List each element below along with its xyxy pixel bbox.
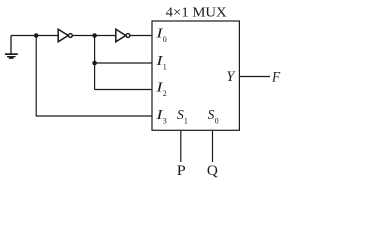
svg-text:2: 2 (163, 89, 167, 98)
svg-text:4×1 MUX: 4×1 MUX (166, 5, 227, 20)
mux U3 box (152, 21, 239, 130)
svg-text:0: 0 (215, 116, 219, 125)
svg-text:P: P (177, 163, 186, 179)
inverter U2 (116, 29, 130, 42)
wire select S0 stub (212, 131, 214, 162)
wire ground to inverter U1 input (11, 35, 58, 37)
svg-text:0: 0 (163, 35, 167, 44)
pin label S1 (177, 107, 188, 125)
ground (5, 36, 18, 59)
node junction at ground branch (34, 33, 39, 38)
wire to MUX I2 (95, 89, 152, 91)
svg-text:1: 1 (163, 62, 167, 71)
wire inverter U1 output to inverter U2 input (72, 35, 116, 37)
pin label I1 (155, 53, 167, 71)
inverter U1 (58, 29, 72, 42)
wire inverter U2 output to MUX I0 (130, 35, 152, 37)
svg-text:F: F (271, 69, 281, 85)
node junction between inverters (92, 33, 97, 38)
pin label I2 (155, 80, 167, 98)
svg-text:3: 3 (163, 116, 167, 125)
svg-text:1: 1 (184, 116, 188, 125)
wire Y output to F (239, 76, 270, 78)
svg-text:S: S (208, 107, 215, 122)
pin label S0 (208, 107, 219, 125)
svg-text:Q: Q (207, 163, 218, 179)
wire vertical branch to I1/I2 (94, 36, 96, 90)
pin label I3 (155, 107, 167, 125)
pin label I0 (155, 26, 167, 44)
wire select S1 stub (180, 131, 182, 162)
wire to MUX I1 (95, 62, 152, 64)
wire vertical branch to I3 (36, 36, 152, 117)
node junction at I1 branch (92, 61, 97, 66)
